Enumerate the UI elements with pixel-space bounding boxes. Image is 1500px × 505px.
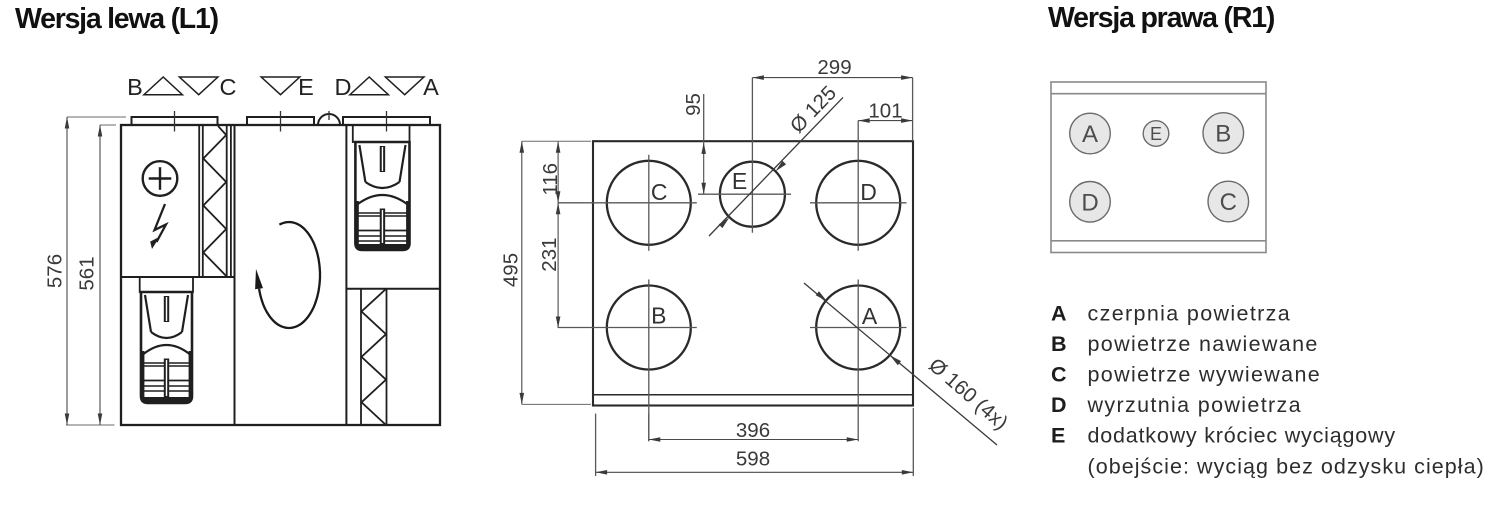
svg-text:dodatkowy króciec wyciągowy: dodatkowy króciec wyciągowy	[1088, 424, 1396, 448]
svg-text:C: C	[220, 74, 237, 100]
svg-text:powietrze nawiewane: powietrze nawiewane	[1088, 332, 1319, 356]
svg-text:C: C	[1051, 363, 1067, 387]
svg-text:A: A	[862, 303, 878, 329]
svg-text:299: 299	[817, 56, 851, 79]
svg-text:E: E	[1150, 124, 1162, 144]
svg-text:D: D	[1051, 393, 1067, 417]
svg-text:Wersja prawa (R1): Wersja prawa (R1)	[1048, 2, 1275, 34]
svg-text:(obejście: wyciąg bez odzysku: (obejście: wyciąg bez odzysku ciepła)	[1088, 455, 1485, 479]
svg-text:D: D	[1081, 189, 1098, 216]
svg-text:B: B	[1215, 121, 1231, 148]
svg-text:wyrzutnia powietrza: wyrzutnia powietrza	[1087, 393, 1302, 417]
svg-text:czerpnia powietrza: czerpnia powietrza	[1088, 301, 1292, 325]
svg-text:116: 116	[539, 163, 562, 196]
svg-text:101: 101	[868, 100, 902, 123]
svg-text:576: 576	[44, 254, 67, 288]
svg-text:C: C	[651, 179, 668, 205]
svg-text:E: E	[298, 74, 314, 100]
svg-text:E: E	[732, 168, 747, 194]
svg-text:C: C	[1220, 189, 1237, 216]
svg-text:Wersja lewa (L1): Wersja lewa (L1)	[15, 3, 219, 35]
svg-text:598: 598	[736, 448, 770, 471]
svg-text:B: B	[127, 74, 143, 100]
svg-text:231: 231	[538, 237, 561, 271]
svg-text:561: 561	[76, 256, 99, 290]
svg-text:B: B	[1051, 332, 1067, 356]
svg-text:B: B	[651, 303, 666, 329]
svg-text:powietrze wywiewane: powietrze wywiewane	[1088, 363, 1322, 387]
svg-text:495: 495	[500, 253, 523, 287]
svg-text:95: 95	[682, 93, 705, 116]
svg-text:396: 396	[736, 419, 770, 442]
svg-text:E: E	[1051, 424, 1065, 448]
svg-text:D: D	[335, 74, 352, 100]
svg-text:A: A	[423, 74, 439, 100]
svg-text:A: A	[1082, 121, 1098, 148]
svg-text:A: A	[1051, 301, 1067, 325]
svg-text:D: D	[860, 179, 877, 205]
